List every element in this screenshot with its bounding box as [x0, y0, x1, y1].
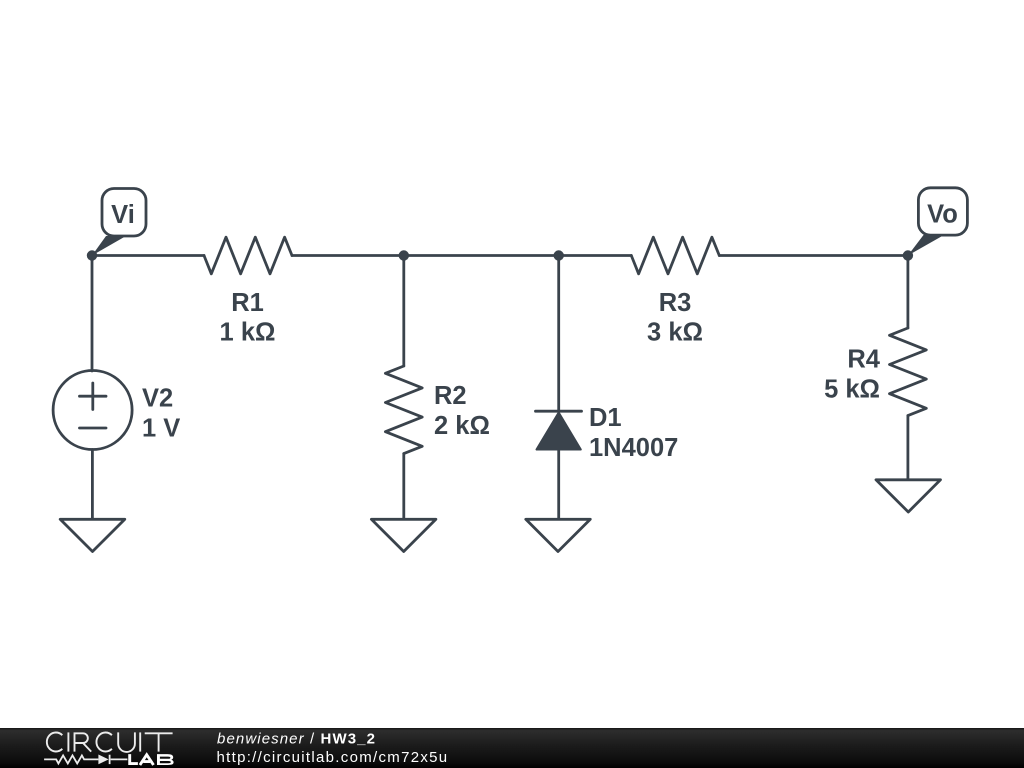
letter T — [145, 733, 173, 751]
resistor R2 — [385, 366, 422, 454]
diode D1 cathode bar — [536, 410, 582, 413]
svg-text:D1: D1 — [589, 404, 622, 432]
svg-text:3 kΩ: 3 kΩ — [647, 319, 703, 347]
logo LAB letter A — [140, 755, 154, 765]
node C dot — [554, 250, 564, 260]
svg-text:R4: R4 — [847, 346, 880, 374]
voltage source V2 — [53, 371, 132, 450]
wire Vi node down to V2 — [91, 256, 94, 372]
resistor R1 — [204, 237, 292, 274]
Vi flag tail — [92, 236, 126, 256]
logo LAB letter B — [157, 754, 174, 765]
node Vo dot — [903, 250, 913, 260]
svg-text:V2: V2 — [142, 385, 173, 413]
ground (R4) — [876, 480, 941, 512]
ground (D1) — [526, 519, 591, 551]
wire node B down to R2 — [402, 256, 405, 367]
logo resistor-diode line — [44, 755, 127, 764]
CircuitLab logo: CIRCUIT word — [47, 732, 173, 752]
svg-text:R1: R1 — [231, 289, 264, 317]
ground (R2) — [371, 519, 436, 551]
svg-text:Vi: Vi — [111, 201, 135, 229]
letter I — [67, 732, 69, 751]
logo LAB letter L — [130, 754, 138, 764]
node Vi dot — [87, 250, 97, 260]
diode D1 triangle — [537, 413, 581, 450]
letter C — [96, 733, 111, 752]
svg-text:2 kΩ: 2 kΩ — [434, 412, 490, 440]
wire Vo node down to R4 — [907, 256, 910, 329]
svg-text:R3: R3 — [659, 289, 692, 317]
letter I — [139, 732, 141, 751]
wire R4 to ground — [907, 416, 910, 480]
logo diode triangle — [98, 755, 108, 765]
resistor R3 — [631, 237, 719, 274]
Vi flag box — [102, 189, 146, 237]
wire Vi node to R1 — [92, 254, 204, 257]
svg-text:benwiesner / HW3_2: benwiesner / HW3_2 — [217, 731, 376, 748]
ground (V2) — [60, 519, 125, 551]
letter R — [75, 733, 92, 751]
svg-text:R2: R2 — [434, 382, 467, 410]
wire R1 to node B — [292, 254, 404, 257]
svg-text:5 kΩ: 5 kΩ — [824, 376, 880, 404]
resistor R4 — [890, 328, 927, 416]
wire R2 to ground — [402, 454, 405, 520]
letter C — [47, 733, 62, 752]
svg-text:1 V: 1 V — [142, 415, 180, 443]
svg-text:Vo: Vo — [927, 201, 958, 229]
svg-text:http://circuitlab.com/cm72x5u: http://circuitlab.com/cm72x5u — [217, 749, 449, 766]
svg-text:1N4007: 1N4007 — [589, 434, 678, 462]
node B dot — [399, 250, 409, 260]
Vo flag box — [918, 188, 967, 235]
wire node C to R3 — [559, 254, 632, 257]
letter U — [118, 732, 135, 752]
wire V2 to ground — [91, 450, 94, 520]
wire node C down to D1 — [557, 256, 560, 412]
wire node B to node C — [404, 254, 559, 257]
Vo flag tail — [908, 235, 944, 256]
wire R3 to Vo node — [719, 254, 908, 257]
wire D1 to ground — [557, 450, 560, 520]
svg-text:1 kΩ: 1 kΩ — [220, 319, 276, 347]
